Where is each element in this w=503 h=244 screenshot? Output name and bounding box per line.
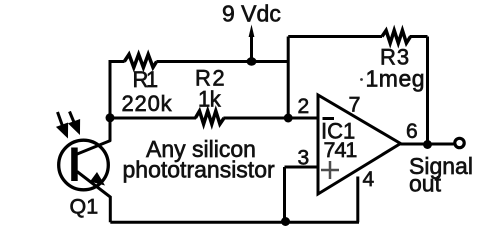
- wire: pin 3 stub: [285, 166, 319, 169]
- light arrow 1: [58, 112, 67, 135]
- transistor Q1 emitter lead (drawn above in wire polyline) arrowhead: [90, 172, 105, 186]
- light arrow 2: [70, 112, 79, 132]
- resistor R3 zigzag: [382, 30, 411, 43]
- wire: feedback top left segment: [288, 35, 382, 38]
- svg-text:out: out: [409, 171, 442, 197]
- svg-text:7: 7: [349, 93, 361, 117]
- wire: emitter to bottom rail: [77, 172, 110, 223]
- svg-text:3: 3: [298, 147, 310, 170]
- wire: inverting input rail left segment: [110, 117, 196, 120]
- wire: pin 4 vertical: [356, 177, 359, 223]
- transistor Q1 circle: [59, 140, 109, 190]
- svg-text:2: 2: [298, 95, 310, 118]
- op-amp U1 triangle: [318, 95, 401, 194]
- node: output junction: [423, 140, 432, 149]
- svg-text:1k: 1k: [198, 87, 222, 112]
- svg-text:1meg: 1meg: [366, 66, 426, 92]
- wire: feedback top right segment: [410, 35, 428, 38]
- svg-text:4: 4: [363, 168, 375, 191]
- node: supply junction: [247, 57, 257, 65]
- svg-text:220k: 220k: [122, 91, 173, 116]
- wire: top supply rail left segment: [110, 60, 125, 63]
- resistor R2 zigzag: [195, 111, 224, 124]
- transistor Q1 collector lead: [76, 141, 111, 155]
- node: inverting input junction: [284, 114, 293, 123]
- wire: left vertical (collector node): [109, 60, 112, 142]
- wire: output: [401, 143, 454, 146]
- transistor Q1 base bar: [71, 148, 78, 182]
- output terminal circle: [455, 138, 464, 147]
- wire: feedback left vertical: [287, 37, 290, 119]
- wire: feedback right vertical: [426, 37, 429, 145]
- svg-text:R1: R1: [133, 67, 158, 92]
- svg-text:phototransistor: phototransistor: [123, 157, 275, 183]
- minus bar over IC1: [323, 117, 335, 120]
- svg-text:6: 6: [406, 120, 418, 143]
- node: collector junction: [106, 113, 115, 122]
- 9 Vdc arrowhead: [249, 25, 255, 38]
- svg-text:741: 741: [324, 138, 357, 162]
- resistor R1 zigzag: [124, 54, 156, 67]
- wire: pin 3 ground loop vertical: [283, 167, 286, 222]
- wire: 9 Vdc supply arrow stem: [250, 35, 253, 62]
- wire: top supply rail right segment: [156, 60, 288, 63]
- svg-text:9 Vdc: 9 Vdc: [222, 1, 281, 27]
- wire: bottom rail: [110, 221, 359, 224]
- node: pin3 loop junction: [281, 217, 290, 226]
- stray dot before 1meg: [360, 78, 363, 81]
- wire: pin 2 stub: [223, 117, 318, 120]
- svg-text:Q1: Q1: [70, 195, 99, 219]
- plus sign (non-inverting): [321, 161, 339, 179]
